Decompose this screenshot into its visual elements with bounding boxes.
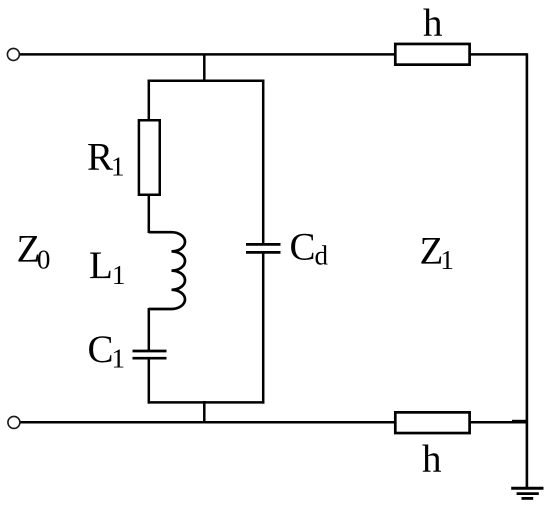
wire bottom bus bbox=[20, 421, 529, 424]
wire resistor to inductor bbox=[148, 196, 151, 233]
wire inductor to C1 bbox=[148, 308, 151, 351]
resistor h top bbox=[395, 44, 469, 65]
capacitor C1 top plate bbox=[133, 350, 167, 353]
wire top bus bbox=[19, 53, 527, 56]
wire junction stub bottom bbox=[203, 401, 206, 424]
wire branch top horizontal bbox=[148, 80, 265, 83]
capacitor Cd bottom plate bbox=[246, 251, 281, 254]
junction thick segment bbox=[512, 420, 527, 424]
svg-text:h: h bbox=[423, 2, 443, 45]
resistor R1 bbox=[139, 120, 160, 195]
wire Cd branch upper bbox=[262, 80, 265, 245]
wire junction stub top bbox=[203, 54, 206, 82]
terminal top-left bbox=[7, 48, 19, 60]
inductor L1 bbox=[149, 232, 185, 309]
capacitor Cd top plate bbox=[246, 243, 281, 246]
wire branch bottom horizontal bbox=[148, 401, 265, 404]
capacitor C1 bottom plate bbox=[133, 357, 167, 360]
ground bbox=[511, 488, 543, 498]
terminal bottom-left bbox=[8, 416, 20, 428]
svg-text:h: h bbox=[422, 438, 442, 481]
wire C1 to bottom bbox=[148, 358, 151, 403]
wire left branch upper bbox=[148, 80, 151, 121]
wire Cd branch lower bbox=[262, 252, 265, 403]
wire right vertical bbox=[526, 53, 529, 488]
resistor h bottom bbox=[395, 412, 469, 433]
